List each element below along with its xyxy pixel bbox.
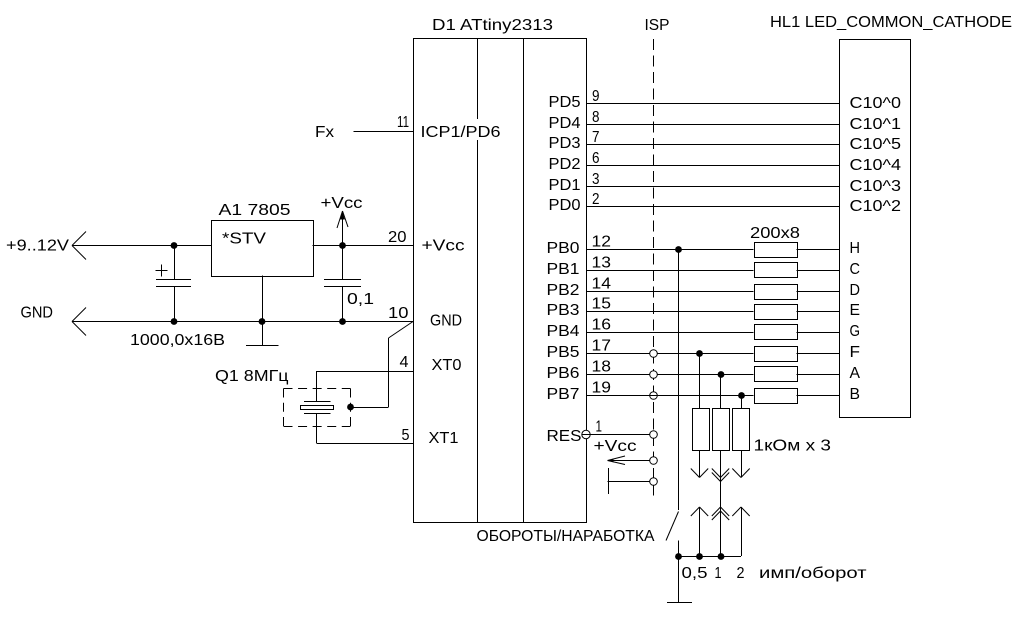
resistor network element 8 <box>755 389 798 404</box>
crystal Q1 shield dashed box <box>284 388 351 390</box>
svg-text:PB2: PB2 <box>547 282 580 299</box>
wire resistor network to HL1 row 2 <box>797 291 840 293</box>
wire PB0 tap down to switch <box>678 249 680 510</box>
svg-text:GND: GND <box>21 305 54 322</box>
svg-text:16: 16 <box>592 317 612 334</box>
svg-text:PD3: PD3 <box>549 135 581 152</box>
junction dot Vcc rail / C2 <box>339 242 346 249</box>
junction dot PB6 tap <box>718 371 725 378</box>
wire switch to bottom rail <box>678 541 680 557</box>
wire pin10 jog to crystal case <box>389 322 414 339</box>
resistor network element 7 <box>755 367 798 382</box>
D1 internal column line 2 <box>523 38 525 522</box>
wire resistor network to HL1 row 3 <box>797 311 840 313</box>
capacitor C2 plates <box>324 279 361 281</box>
ISP ground tee symbol <box>608 468 610 494</box>
junction dot PB0 / switch feed <box>675 246 682 253</box>
resistor network element 4 <box>755 305 798 320</box>
svg-text:ICP1/PD6: ICP1/PD6 <box>421 124 501 141</box>
ISP dashed bus line <box>653 39 655 500</box>
ISP pad on +Vcc feed <box>650 457 658 465</box>
svg-text:3: 3 <box>592 171 600 188</box>
wire PB3 to resistor network <box>586 311 754 313</box>
svg-text:A: A <box>850 365 861 382</box>
wire PB5 to resistor network <box>586 353 754 355</box>
wire PB5 tap to R1 <box>699 353 701 409</box>
svg-text:D1 ATtiny2313: D1 ATtiny2313 <box>432 17 553 34</box>
socket arrow up 3 <box>732 507 741 516</box>
svg-text:15: 15 <box>592 296 612 313</box>
wire PD1 to HL1 <box>586 186 839 188</box>
wire GND rail <box>72 321 413 323</box>
svg-text:6: 6 <box>592 150 600 167</box>
svg-text:1кОм x 3: 1кОм x 3 <box>754 438 832 455</box>
wire crystal to XT1 <box>316 414 318 444</box>
wire resistor network to HL1 row 4 <box>797 332 840 334</box>
svg-text:PB0: PB0 <box>547 240 580 257</box>
resistor network element 2 <box>755 263 798 278</box>
power symbol +Vcc arrow near A1 <box>342 211 344 245</box>
svg-text:7: 7 <box>592 129 600 146</box>
ISP pad on PB7 <box>650 392 658 400</box>
wire PD2 to HL1 <box>586 165 839 167</box>
wire PB7 tap to R3 <box>741 395 743 409</box>
svg-text:PD1: PD1 <box>549 177 581 194</box>
svg-text:Q1 8МГц: Q1 8МГц <box>215 368 289 385</box>
svg-text:C10^4: C10^4 <box>850 157 902 174</box>
svg-text:2: 2 <box>592 191 600 208</box>
svg-text:GND: GND <box>430 313 462 330</box>
wire PD5 to HL1 <box>586 103 839 105</box>
svg-text:12: 12 <box>592 234 612 251</box>
svg-text:17: 17 <box>592 338 612 355</box>
label +Vcc near A1 <box>318 194 364 210</box>
ground bar under A1 <box>246 345 279 347</box>
wire PB4 to resistor network <box>586 332 754 334</box>
svg-text:1000,0x16В: 1000,0x16В <box>130 332 225 349</box>
svg-text:PB3: PB3 <box>547 302 580 319</box>
svg-text:XT0: XT0 <box>432 357 462 374</box>
wire resistor network to HL1 row 5 <box>797 353 840 355</box>
svg-text:*STV: *STV <box>222 231 266 248</box>
junction dot rail tap 1 <box>718 553 725 560</box>
plug arrow down 3 <box>741 451 743 477</box>
resistor R3 1kOm <box>733 409 750 451</box>
wire resistor network to HL1 row 6 <box>797 374 840 376</box>
junction dot GND rail / C1 <box>171 318 178 325</box>
wire resistor network to HL1 row 1 <box>797 270 840 272</box>
svg-text:B: B <box>850 386 861 403</box>
svg-text:9: 9 <box>592 88 600 105</box>
svg-text:5: 5 <box>402 427 410 444</box>
svg-text:PD0: PD0 <box>549 197 581 214</box>
junction dot rail left <box>675 553 682 560</box>
svg-text:Fx: Fx <box>315 124 334 141</box>
svg-text:200x8: 200x8 <box>750 225 800 242</box>
svg-text:4: 4 <box>400 354 409 371</box>
ISP pad on PB6 <box>650 371 658 379</box>
svg-text:RES: RES <box>547 428 582 445</box>
junction dot GND rail / A1 ground <box>259 318 266 325</box>
svg-text:11: 11 <box>397 114 409 131</box>
pin name ICP1/PD6 <box>418 119 503 140</box>
svg-text:14: 14 <box>592 276 612 293</box>
wire resistor network to HL1 row 0 <box>797 249 840 251</box>
svg-text:8: 8 <box>592 109 600 126</box>
wire PB6 to resistor network <box>586 374 754 376</box>
ISP +Vcc feed arrow <box>608 460 650 462</box>
wire PB6 tap to R2 <box>720 374 722 409</box>
wire XT0 to crystal <box>317 371 414 373</box>
RES pin circle at D1 edge <box>582 430 590 438</box>
regulator A1 7805 body <box>212 221 314 277</box>
ISP pad on RES line <box>650 431 658 439</box>
wire PB1 to resistor network <box>586 270 754 272</box>
switch lever <box>666 512 679 541</box>
wire rail to ground <box>678 556 680 602</box>
svg-text:PD5: PD5 <box>549 94 581 111</box>
svg-text:PB5: PB5 <box>547 344 580 361</box>
junction dot rail tap 0,5 <box>696 553 703 560</box>
svg-text:13: 13 <box>592 255 612 272</box>
svg-text:HL1 LED_COMMON_CATHODE: HL1 LED_COMMON_CATHODE <box>770 14 1012 31</box>
svg-text:имп/оборот: имп/оборот <box>759 565 867 582</box>
svg-text:H: H <box>850 240 861 257</box>
wire PD4 to HL1 <box>586 124 839 126</box>
capacitor C1 negative lead <box>174 287 176 321</box>
svg-text:D: D <box>850 282 861 299</box>
plug arrow down 2 (double) <box>720 451 722 481</box>
svg-text:PB1: PB1 <box>547 261 580 278</box>
ISP pad on PB5 <box>650 350 658 358</box>
crystal Q1 bottom plate <box>304 413 331 415</box>
wire regulator output to pin 20 <box>313 245 414 247</box>
socket arrow up 1 <box>691 507 700 516</box>
svg-text:PB6: PB6 <box>547 365 580 382</box>
indicator HL1 body <box>840 40 911 418</box>
wire resistor network to HL1 row 7 <box>797 395 840 397</box>
junction dot Vcc rail / C1 <box>171 242 178 249</box>
bottom selector rail <box>678 556 741 558</box>
svg-text:C10^0: C10^0 <box>850 95 902 112</box>
svg-text:C: C <box>850 261 861 278</box>
svg-text:PB7: PB7 <box>547 386 580 403</box>
junction dot crystal case <box>347 404 354 411</box>
svg-text:0,1: 0,1 <box>347 291 374 308</box>
capacitor C2 bottom lead <box>342 287 344 321</box>
svg-text:XT1: XT1 <box>429 430 459 447</box>
regulator A1 ground pin wire <box>262 276 264 346</box>
wire Fx to pin 11 <box>354 131 414 133</box>
svg-text:18: 18 <box>592 359 612 376</box>
svg-text:F: F <box>850 344 861 361</box>
svg-text:C10^2: C10^2 <box>850 198 902 215</box>
svg-text:1: 1 <box>596 419 603 436</box>
svg-text:E: E <box>850 302 861 319</box>
plug arrow down 1 <box>699 451 701 477</box>
svg-text:PD4: PD4 <box>549 115 581 132</box>
junction dot GND rail / C2 <box>339 318 346 325</box>
svg-text:PD2: PD2 <box>549 156 581 173</box>
D1 internal column line 1 <box>477 38 479 522</box>
wire PB7 to resistor network <box>586 395 754 397</box>
svg-text:+Vcc: +Vcc <box>422 238 465 255</box>
socket arrow up 2 (double) <box>712 507 721 516</box>
svg-text:1: 1 <box>715 565 722 582</box>
svg-text:PB4: PB4 <box>547 323 580 340</box>
capacitor C1 polarity plus <box>156 270 168 272</box>
ground symbol <box>667 602 692 604</box>
wire PB0 to resistor network <box>586 249 754 251</box>
junction dot PB7 tap <box>738 392 745 399</box>
svg-text:+9..12V: +9..12V <box>6 238 69 255</box>
wire RES to ISP <box>586 434 653 436</box>
wire PB2 to resistor network <box>586 291 754 293</box>
svg-text:+Vcc: +Vcc <box>321 195 363 212</box>
capacitor C2 0,1 top lead <box>342 245 344 279</box>
svg-text:2: 2 <box>737 565 745 582</box>
capacitor C1 plates <box>156 279 191 281</box>
svg-text:19: 19 <box>592 380 612 397</box>
arrow GND <box>72 308 86 322</box>
resistor network element 1 <box>755 243 798 258</box>
crystal Q1 body <box>301 406 334 410</box>
svg-text:ISP: ISP <box>645 17 670 34</box>
wire PD0 to HL1 <box>586 206 839 208</box>
resistor network element 5 <box>755 325 798 340</box>
svg-text:+Vcc: +Vcc <box>594 438 637 455</box>
MCU U/D1 ATtiny2313 body <box>414 39 587 523</box>
svg-text:G: G <box>850 323 861 340</box>
resistor R2 1kOm <box>713 409 730 451</box>
junction dot PB5 tap <box>696 350 703 357</box>
arrow +9..12V <box>72 232 86 246</box>
svg-text:C10^1: C10^1 <box>850 116 902 133</box>
resistor network element 3 <box>755 285 798 300</box>
svg-text:ОБОРОТЫ/НАРАБОТКА: ОБОРОТЫ/НАРАБОТКА <box>477 528 655 545</box>
svg-text:10: 10 <box>388 305 409 322</box>
ISP pad on ground tee <box>650 478 658 486</box>
wire PD3 to HL1 <box>586 144 839 146</box>
svg-text:20: 20 <box>388 229 407 246</box>
crystal Q1 top plate <box>304 401 331 403</box>
wire +9..12V rail to regulator <box>72 245 211 247</box>
capacitor C1 1000,0x16V positive lead <box>174 245 176 279</box>
resistor network element 6 <box>755 347 798 362</box>
svg-text:C10^3: C10^3 <box>850 178 902 195</box>
resistor R1 1kOm <box>693 409 710 451</box>
svg-text:0,5: 0,5 <box>682 565 708 582</box>
svg-text:C10^5: C10^5 <box>850 136 902 153</box>
svg-text:A1 7805: A1 7805 <box>219 202 291 219</box>
